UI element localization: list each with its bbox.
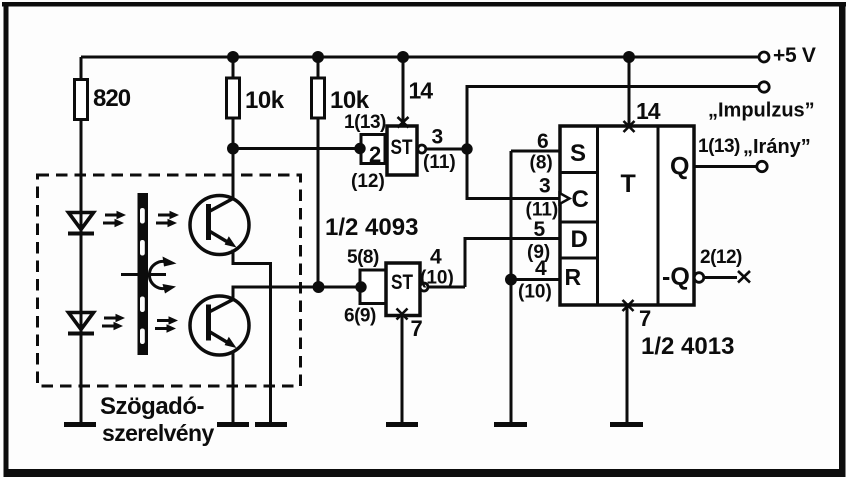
- terminal Impulzus: [759, 82, 769, 92]
- pin mark U1a pin14: [398, 117, 409, 128]
- svg-text:5(8): 5(8): [347, 247, 379, 268]
- wire D2 to ground: [80, 330, 83, 422]
- C input arrow: [560, 193, 570, 204]
- wire R3 bottom: [317, 118, 320, 287]
- ground S/R bus: [494, 422, 527, 427]
- ground Q1 emitter: [255, 422, 287, 427]
- svg-text:Szögadó-: Szögadó-: [100, 393, 204, 420]
- pin mark U2 pin14: [624, 121, 635, 132]
- light arrows D1: [103, 211, 126, 227]
- svg-text:-Q: -Q: [662, 263, 690, 291]
- transistor Q2: [190, 296, 249, 355]
- wire Impulzus: [467, 87, 759, 150]
- wire U1a input: [233, 147, 361, 150]
- wire clock to C input: [467, 149, 559, 199]
- node top rail / U2 pin14: [623, 51, 635, 63]
- wire Q output: [694, 165, 757, 168]
- wire R3 top: [317, 57, 320, 78]
- svg-text:(10): (10): [518, 282, 552, 303]
- resistor R2 10k: [227, 78, 240, 118]
- wire +5V top rail: [81, 56, 759, 59]
- node U1b input: [355, 281, 366, 292]
- svg-text:(11): (11): [423, 152, 456, 173]
- wire -Q output: [704, 276, 737, 279]
- svg-text:4: 4: [535, 257, 547, 280]
- svg-text:2: 2: [369, 142, 381, 167]
- svg-text:3: 3: [539, 175, 551, 198]
- svg-text:Q: Q: [670, 153, 689, 181]
- wire U1b pin7: [401, 316, 404, 423]
- wire U2 pin14: [628, 57, 631, 126]
- svg-text:14: 14: [409, 78, 434, 104]
- ground Q2 emitter: [217, 422, 249, 427]
- svg-text:D: D: [571, 226, 588, 253]
- svg-text:10k: 10k: [330, 87, 370, 114]
- svg-text:C: C: [572, 186, 589, 213]
- svg-text:3: 3: [432, 126, 444, 149]
- svg-text:5: 5: [534, 218, 546, 241]
- transistor Q1: [190, 196, 249, 255]
- open end mark -Q: [738, 271, 750, 283]
- svg-text:T: T: [621, 170, 636, 198]
- node top rail / R2: [227, 51, 239, 63]
- svg-text:14: 14: [636, 98, 661, 124]
- encoder disc: [138, 193, 149, 355]
- svg-text:„Impulzus”: „Impulzus”: [708, 100, 815, 122]
- wire R1 to D1: [80, 120, 83, 233]
- svg-text:+5 V: +5 V: [773, 44, 816, 67]
- ground U1b pin7: [386, 422, 418, 427]
- ground U2 pin7: [610, 422, 643, 427]
- light arrows D2: [102, 314, 125, 330]
- svg-text:2(12): 2(12): [700, 247, 742, 268]
- wire Q2 collector to U1b input: [233, 287, 360, 300]
- wire D1 to D2: [80, 230, 83, 332]
- svg-text:10k: 10k: [245, 87, 285, 114]
- LED D1: [68, 213, 94, 234]
- wire Q1 emitter to ground: [233, 250, 271, 423]
- svg-text:S: S: [570, 140, 586, 167]
- flip-flop U2 1/2 4013 body: [560, 126, 694, 305]
- wire R input: [511, 278, 560, 281]
- disc axis: [121, 273, 166, 276]
- wire U1a pin14: [402, 57, 405, 126]
- svg-text:ST: ST: [391, 271, 413, 294]
- wire U1b output to D input: [428, 239, 560, 288]
- wire Q2 emitter to ground: [232, 351, 235, 423]
- node top rail / R3: [312, 51, 324, 63]
- svg-text:R: R: [565, 264, 582, 290]
- U1a output bubble: [418, 145, 426, 153]
- rotation arrow: [149, 257, 176, 294]
- svg-text:(8): (8): [530, 153, 553, 174]
- svg-text:1/2 4093: 1/2 4093: [325, 214, 418, 241]
- terminal +5V: [759, 52, 769, 62]
- gate U1a input box: [361, 135, 385, 168]
- svg-text:7: 7: [411, 316, 423, 341]
- wire R1 top: [80, 57, 83, 80]
- dashed box sensor assembly: [38, 175, 301, 386]
- svg-text:6: 6: [537, 130, 549, 153]
- node top rail / U1a pin14: [397, 51, 409, 63]
- svg-text:szerelvény: szerelvény: [102, 420, 214, 446]
- wire S input: [511, 150, 560, 153]
- pin mark U1b pin7: [397, 309, 408, 320]
- LED D2: [68, 313, 94, 334]
- wire Q1 collector: [232, 149, 235, 200]
- light arrows to Q1: [156, 211, 179, 227]
- ground LED chain: [64, 422, 96, 427]
- -Q output bubble: [694, 273, 704, 283]
- wire S/R ground bus: [510, 151, 513, 422]
- pin mark U2 pin7: [623, 300, 634, 311]
- gate U1b body (1/2 4093): [386, 263, 420, 316]
- light arrows to Q2: [155, 316, 178, 332]
- terminal Irany: [757, 161, 767, 171]
- node R3 / Q2 collector wire: [313, 281, 325, 293]
- svg-text:820: 820: [93, 85, 131, 112]
- svg-text:6(9): 6(9): [344, 306, 376, 327]
- svg-text:1(13): 1(13): [344, 112, 386, 133]
- svg-text:(10): (10): [420, 268, 454, 289]
- svg-text:ST: ST: [391, 136, 413, 159]
- resistor R1 820: [75, 80, 88, 120]
- node R2 / Q1 / U1a input: [227, 143, 239, 155]
- svg-text:7: 7: [639, 306, 651, 331]
- U1b output bubble: [420, 283, 428, 291]
- node R input: [505, 274, 517, 286]
- resistor R3 10k: [312, 78, 325, 118]
- svg-text:1(13): 1(13): [698, 136, 740, 157]
- node U1a out / Impulzus / C: [461, 143, 472, 154]
- wire R2 bottom: [232, 118, 235, 149]
- node U1a input: [354, 143, 365, 154]
- gate U1b input box: [360, 270, 386, 304]
- svg-text:1/2 4013: 1/2 4013: [641, 333, 734, 360]
- wire U1a output: [426, 148, 467, 151]
- svg-text:4: 4: [430, 246, 442, 269]
- wire R2 top: [232, 57, 235, 78]
- svg-text:(12): (12): [351, 171, 385, 192]
- gate U1a body (1/2 4093): [387, 126, 417, 175]
- wire U2 pin7: [626, 305, 629, 422]
- svg-text:„Irány”: „Irány”: [743, 136, 811, 158]
